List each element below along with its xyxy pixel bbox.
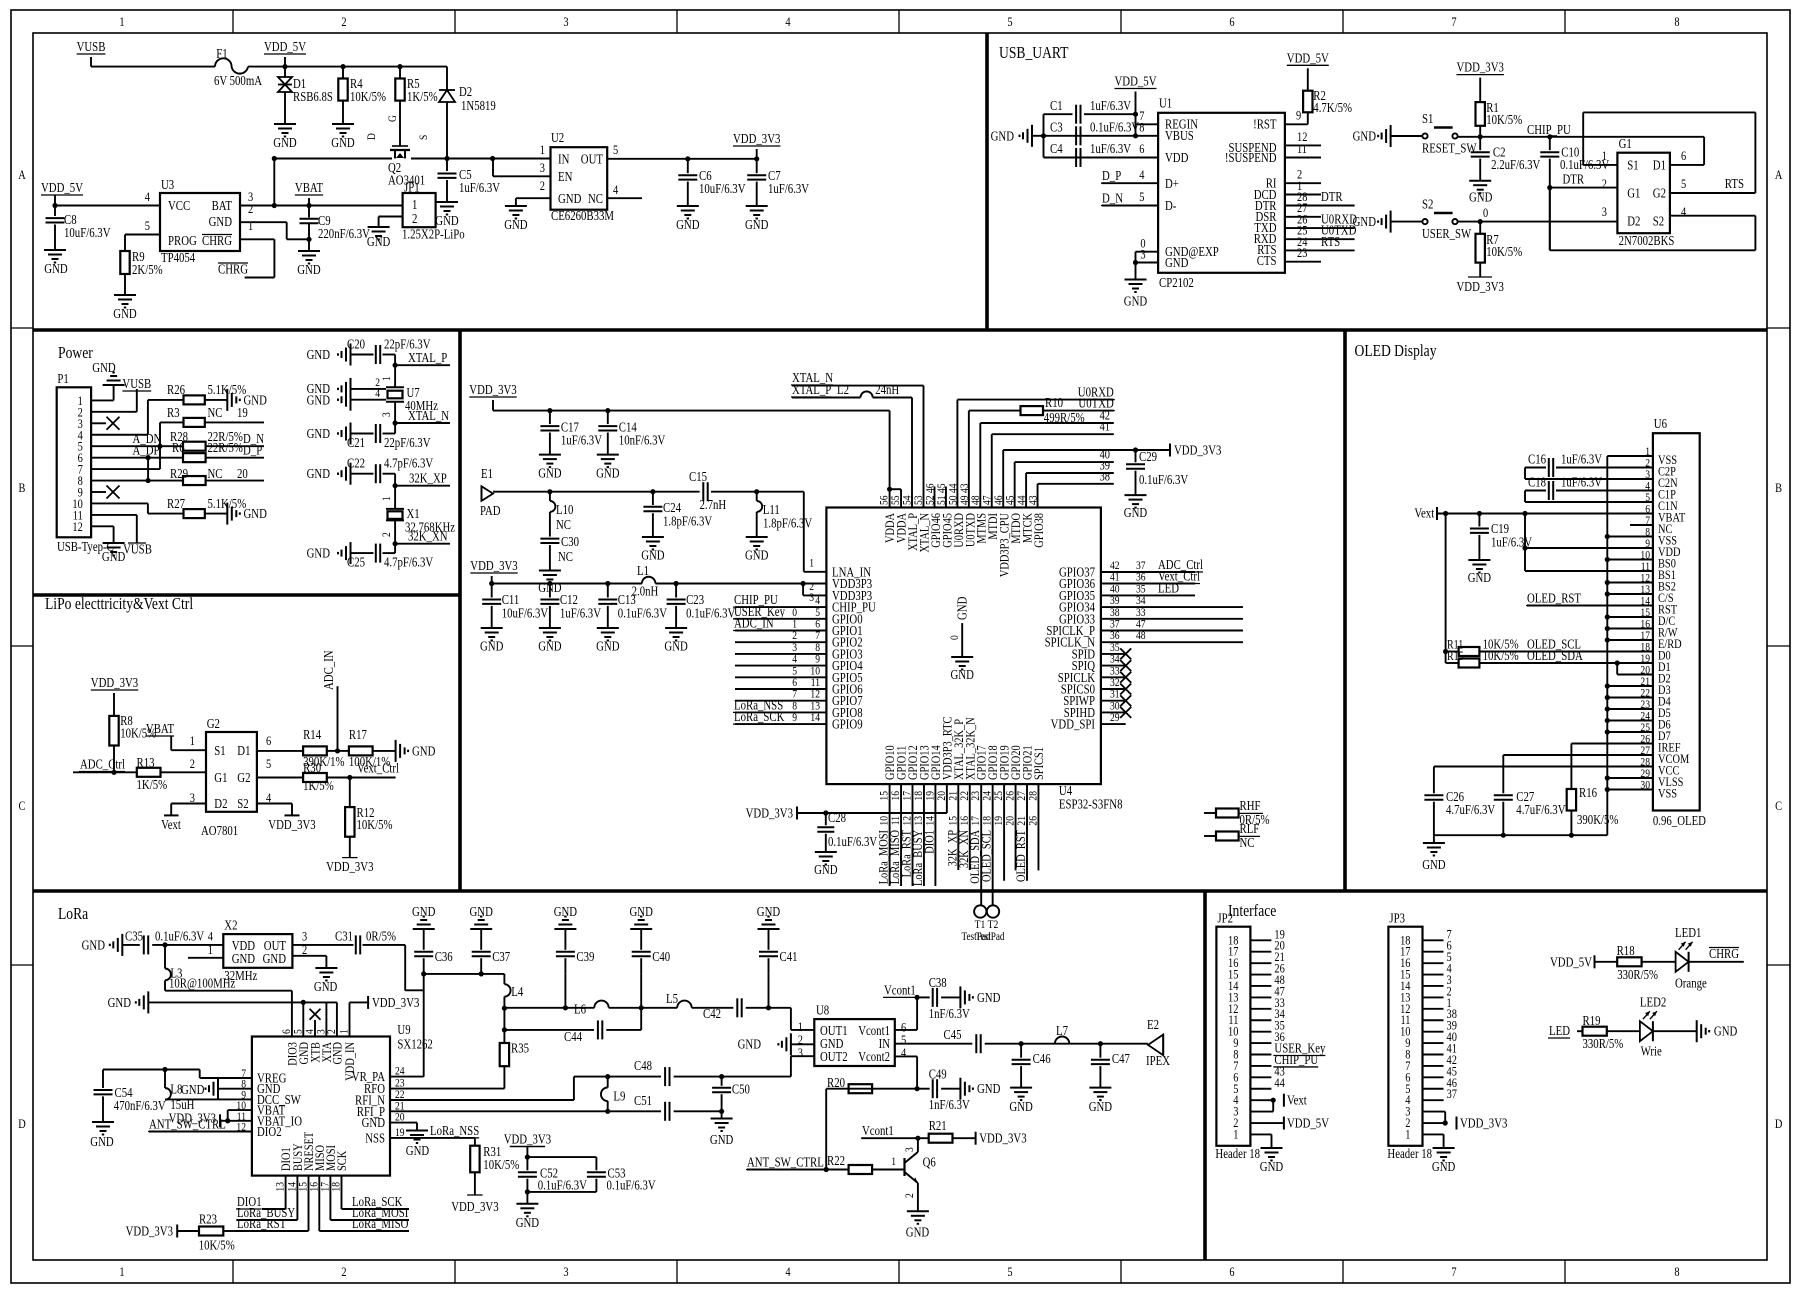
svg-text:C45: C45	[944, 1027, 962, 1042]
svg-text:26: 26	[1025, 816, 1039, 826]
svg-text:BAT: BAT	[212, 198, 233, 213]
svg-text:AO7801: AO7801	[201, 823, 238, 838]
svg-text:0.1uF/6.3V: 0.1uF/6.3V	[686, 606, 735, 621]
svg-text:C31: C31	[335, 929, 353, 944]
svg-text:!RST: !RST	[1253, 117, 1277, 132]
svg-text:NC: NC	[588, 191, 603, 206]
svg-text:1K/5%: 1K/5%	[407, 89, 438, 104]
svg-text:NC: NC	[556, 517, 571, 532]
svg-text:U1: U1	[1159, 96, 1172, 111]
svg-text:GND: GND	[641, 548, 665, 563]
svg-text:5: 5	[1007, 1264, 1012, 1279]
svg-text:IPEX: IPEX	[1146, 1053, 1170, 1068]
svg-text:GND: GND	[596, 639, 620, 654]
svg-text:2: 2	[341, 1264, 346, 1279]
svg-text:TP4054: TP4054	[161, 250, 195, 265]
svg-text:VDD_SPI: VDD_SPI	[1051, 717, 1096, 732]
svg-text:2: 2	[302, 942, 307, 957]
svg-text:1: 1	[1405, 1126, 1410, 1141]
svg-text:OUT: OUT	[581, 152, 604, 167]
svg-text:VDD_3V3: VDD_3V3	[504, 1132, 552, 1147]
svg-text:USER_SW: USER_SW	[1422, 226, 1471, 241]
svg-text:G1: G1	[214, 770, 227, 785]
svg-text:1uF/6.3V: 1uF/6.3V	[459, 180, 500, 195]
svg-text:ANT_SW_CTRL: ANT_SW_CTRL	[747, 1155, 824, 1170]
svg-text:NC: NC	[1240, 835, 1255, 850]
svg-text:G2: G2	[207, 716, 220, 731]
svg-text:GND: GND	[108, 995, 132, 1010]
svg-text:PAD: PAD	[480, 503, 501, 518]
svg-text:10K/5%: 10K/5%	[199, 1238, 235, 1253]
svg-text:CHRG: CHRG	[1709, 946, 1739, 961]
svg-text:RTS: RTS	[1321, 234, 1340, 249]
svg-text:L5: L5	[666, 991, 678, 1006]
svg-text:GND: GND	[1353, 129, 1377, 144]
svg-text:S2: S2	[1653, 214, 1664, 229]
svg-text:B: B	[1775, 480, 1782, 495]
svg-text:1: 1	[1602, 148, 1607, 163]
svg-text:S2: S2	[237, 796, 248, 811]
svg-text:2N7002BKS: 2N7002BKS	[1619, 233, 1675, 248]
svg-text:GND: GND	[538, 639, 562, 654]
svg-text:D: D	[1775, 1116, 1783, 1131]
svg-text:C40: C40	[652, 949, 670, 964]
svg-text:GND: GND	[951, 667, 975, 682]
svg-text:GND: GND	[1124, 294, 1148, 309]
svg-text:R17: R17	[349, 727, 367, 742]
svg-text:LED: LED	[1158, 580, 1179, 595]
svg-text:Vcont1: Vcont1	[884, 982, 916, 997]
svg-text:0.1uF/6.3V: 0.1uF/6.3V	[155, 929, 204, 944]
svg-text:4: 4	[1681, 204, 1687, 219]
svg-text:S2: S2	[1422, 197, 1433, 212]
svg-text:S1: S1	[214, 743, 225, 758]
svg-text:3: 3	[540, 160, 545, 175]
svg-text:2.7nH: 2.7nH	[700, 497, 727, 512]
svg-text:VDD_3V3: VDD_3V3	[91, 675, 139, 690]
svg-text:G1: G1	[1627, 186, 1640, 201]
svg-text:C20: C20	[347, 337, 365, 352]
svg-text:37: 37	[1447, 1086, 1458, 1101]
svg-text:S: S	[416, 135, 430, 140]
svg-text:0R/5%: 0R/5%	[366, 929, 396, 944]
svg-text:R18: R18	[1617, 943, 1635, 958]
svg-text:330R/5%: 330R/5%	[1583, 1036, 1624, 1051]
svg-text:1uF/6.3V: 1uF/6.3V	[1561, 475, 1602, 490]
svg-text:OLED_SCL: OLED_SCL	[979, 830, 994, 882]
svg-text:8: 8	[1139, 120, 1144, 135]
svg-text:1.25X2P-LiPo: 1.25X2P-LiPo	[402, 227, 465, 242]
svg-text:1uF/6.3V: 1uF/6.3V	[768, 181, 809, 196]
svg-text:10nF/6.3V: 10nF/6.3V	[619, 433, 666, 448]
svg-text:S1: S1	[1422, 111, 1433, 126]
svg-text:0.1uF/6.3V: 0.1uF/6.3V	[538, 1178, 587, 1193]
svg-text:4.7uF/6.3V: 4.7uF/6.3V	[1446, 802, 1495, 817]
svg-text:VSS: VSS	[1658, 786, 1677, 801]
svg-text:LED: LED	[1549, 1023, 1570, 1038]
svg-text:Vext: Vext	[1287, 1093, 1307, 1108]
svg-text:LoRa_MISO: LoRa_MISO	[352, 1216, 409, 1231]
svg-text:ADC_IN: ADC_IN	[321, 650, 336, 690]
svg-text:VDD_3V3: VDD_3V3	[1460, 1116, 1508, 1131]
svg-text:G2: G2	[237, 770, 250, 785]
svg-text:GND: GND	[504, 217, 528, 232]
svg-text:VDD_3V3: VDD_3V3	[746, 806, 794, 821]
svg-text:10K/5%: 10K/5%	[1486, 244, 1522, 259]
svg-text:ESP32-S3FN8: ESP32-S3FN8	[1059, 797, 1123, 812]
svg-text:D2: D2	[459, 84, 472, 99]
svg-text:4.7uF/6.3V: 4.7uF/6.3V	[1516, 802, 1565, 817]
svg-text:390K/5%: 390K/5%	[1577, 812, 1618, 827]
svg-text:Vcont1: Vcont1	[862, 1123, 894, 1138]
svg-text:470nF/6.3V: 470nF/6.3V	[114, 1098, 166, 1113]
svg-text:GND: GND	[307, 466, 331, 481]
svg-text:T1: T1	[975, 917, 986, 931]
svg-text:GND: GND	[1124, 505, 1148, 520]
svg-text:CTS: CTS	[1257, 253, 1277, 268]
svg-text:GND: GND	[977, 990, 1001, 1005]
svg-text:VBAT: VBAT	[295, 180, 324, 195]
svg-text:3: 3	[1140, 247, 1145, 262]
svg-text:NC: NC	[558, 549, 573, 564]
svg-text:22R/5%: 22R/5%	[208, 440, 243, 455]
svg-text:GND: GND	[314, 979, 338, 994]
svg-text:VDD_3V3: VDD_3V3	[979, 1131, 1027, 1146]
svg-text:1: 1	[379, 496, 393, 501]
svg-text:D+: D+	[1165, 176, 1179, 191]
svg-text:VDD_3V3: VDD_3V3	[469, 382, 517, 397]
svg-text:GND: GND	[558, 191, 582, 206]
svg-text:1: 1	[337, 1029, 351, 1034]
svg-text:S1: S1	[1627, 157, 1638, 172]
svg-text:T2: T2	[988, 917, 999, 931]
svg-text:E2: E2	[1147, 1017, 1159, 1032]
svg-text:29: 29	[1110, 710, 1120, 724]
svg-text:USB_UART: USB_UART	[999, 43, 1069, 62]
svg-text:6: 6	[1139, 141, 1145, 156]
svg-text:GND: GND	[307, 347, 331, 362]
svg-text:VDD_5V: VDD_5V	[1287, 50, 1329, 65]
svg-text:PROG: PROG	[168, 233, 197, 248]
svg-text:L10: L10	[556, 502, 574, 517]
svg-text:VDD_3V3: VDD_3V3	[126, 1224, 174, 1239]
svg-text:C25: C25	[347, 555, 365, 570]
svg-text:C49: C49	[929, 1067, 947, 1082]
svg-text:CHRG: CHRG	[218, 262, 248, 277]
svg-text:ADC_Ctrl: ADC_Ctrl	[80, 757, 125, 772]
svg-text:SX1262: SX1262	[397, 1037, 432, 1052]
svg-text:R6: R6	[172, 440, 185, 455]
svg-text:1N5819: 1N5819	[461, 98, 496, 113]
svg-text:OLED_RST: OLED_RST	[1013, 830, 1028, 882]
svg-text:2: 2	[190, 756, 195, 771]
svg-text:9: 9	[1296, 108, 1301, 123]
svg-text:R30: R30	[303, 760, 321, 775]
svg-text:Header 18: Header 18	[1387, 1146, 1432, 1161]
svg-text:R29: R29	[170, 466, 188, 481]
svg-text:L6: L6	[574, 1002, 586, 1017]
svg-text:VDD_5V: VDD_5V	[41, 180, 83, 195]
svg-text:R23: R23	[199, 1212, 217, 1227]
svg-text:VDD_3V3: VDD_3V3	[733, 131, 781, 146]
svg-text:U9: U9	[397, 1022, 410, 1037]
svg-text:C15: C15	[689, 469, 707, 484]
svg-text:1K/5%: 1K/5%	[303, 778, 334, 793]
svg-text:3: 3	[379, 412, 393, 417]
svg-text:48: 48	[1136, 628, 1146, 642]
svg-text:C39: C39	[576, 949, 594, 964]
svg-text:U2: U2	[551, 130, 564, 145]
svg-text:LED2: LED2	[1640, 995, 1666, 1010]
svg-text:R35: R35	[511, 1041, 529, 1056]
svg-text:1: 1	[1233, 1126, 1238, 1141]
svg-text:GND: GND	[44, 261, 68, 276]
svg-text:1nF/6.3V: 1nF/6.3V	[929, 1097, 970, 1112]
svg-text:LiPo electtricity&Vext Ctrl: LiPo electtricity&Vext Ctrl	[45, 594, 193, 613]
svg-text:10K/5%: 10K/5%	[483, 1157, 519, 1172]
svg-text:X2: X2	[224, 918, 237, 933]
svg-text:10K/5%: 10K/5%	[357, 817, 393, 832]
svg-text:RLF: RLF	[1240, 821, 1260, 836]
svg-text:4.7K/5%: 4.7K/5%	[1313, 100, 1352, 115]
svg-text:GND: GND	[991, 128, 1015, 143]
svg-text:19: 19	[395, 1125, 405, 1139]
svg-text:GND: GND	[906, 1225, 930, 1240]
svg-text:4: 4	[901, 1045, 907, 1060]
svg-text:VBUS: VBUS	[1165, 128, 1194, 143]
svg-text:C50: C50	[732, 1082, 750, 1097]
svg-text:L4: L4	[511, 984, 523, 999]
svg-text:GND: GND	[1469, 190, 1493, 205]
svg-text:1: 1	[379, 376, 393, 381]
svg-text:L7: L7	[1056, 1023, 1068, 1038]
svg-text:NC: NC	[208, 466, 223, 481]
svg-text:3: 3	[1602, 204, 1607, 219]
svg-text:GND: GND	[596, 466, 620, 481]
svg-text:LoRa_NSS: LoRa_NSS	[430, 1123, 479, 1138]
svg-text:0: 0	[1483, 205, 1488, 220]
svg-text:JP2: JP2	[1217, 911, 1233, 926]
svg-text:GND: GND	[745, 548, 769, 563]
svg-text:7: 7	[1451, 1264, 1457, 1279]
svg-text:RHF: RHF	[1240, 798, 1261, 813]
svg-text:6V 500mA: 6V 500mA	[214, 73, 262, 88]
svg-text:0.1uF/6.3V: 0.1uF/6.3V	[1090, 120, 1139, 135]
svg-text:41: 41	[1100, 419, 1110, 434]
svg-text:GND: GND	[367, 234, 391, 249]
svg-text:C30: C30	[561, 534, 579, 549]
svg-text:A_DP: A_DP	[133, 443, 160, 458]
svg-text:R19: R19	[1583, 1013, 1601, 1028]
svg-text:OLED_SDA: OLED_SDA	[1527, 648, 1583, 663]
svg-text:14: 14	[810, 710, 820, 724]
svg-text:2K/5%: 2K/5%	[132, 262, 163, 277]
svg-text:4: 4	[145, 189, 151, 204]
svg-text:1uF/6.3V: 1uF/6.3V	[1090, 141, 1131, 156]
svg-text:VDD_5V: VDD_5V	[1550, 955, 1592, 970]
svg-text:LoRa: LoRa	[58, 904, 89, 923]
svg-text:GPIO38: GPIO38	[1031, 513, 1046, 548]
svg-text:GND: GND	[297, 262, 321, 277]
svg-text:Vext_Ctrl: Vext_Ctrl	[357, 761, 399, 776]
svg-text:TestPad: TestPad	[976, 931, 1005, 943]
svg-text:6: 6	[1229, 1264, 1235, 1279]
svg-text:RTS: RTS	[1725, 176, 1744, 191]
svg-text:1: 1	[119, 1264, 124, 1279]
svg-text:7: 7	[1451, 14, 1457, 29]
svg-text:ANT_SW_CTRL: ANT_SW_CTRL	[149, 1117, 226, 1132]
svg-text:C41: C41	[780, 949, 798, 964]
svg-text:C28: C28	[828, 810, 846, 825]
svg-text:VDD_5V: VDD_5V	[1287, 1116, 1329, 1131]
svg-text:NSS: NSS	[365, 1130, 385, 1145]
svg-text:20: 20	[237, 466, 248, 481]
svg-text:GPIO9: GPIO9	[832, 717, 863, 732]
svg-text:E1: E1	[481, 466, 493, 481]
svg-text:CE6260B33M: CE6260B33M	[551, 208, 614, 223]
svg-text:GND: GND	[113, 306, 137, 321]
svg-text:GND: GND	[412, 743, 436, 758]
svg-text:D: D	[18, 1116, 26, 1131]
svg-text:B: B	[19, 480, 26, 495]
svg-text:C4: C4	[1050, 141, 1063, 156]
svg-text:D1: D1	[237, 743, 250, 758]
svg-text:GND: GND	[676, 217, 700, 232]
svg-text:U8: U8	[816, 1003, 829, 1018]
svg-text:JP1: JP1	[404, 180, 420, 195]
svg-text:12: 12	[72, 519, 82, 534]
svg-text:11: 11	[1297, 141, 1307, 156]
svg-text:1uF/6.3V: 1uF/6.3V	[1090, 98, 1131, 113]
svg-text:IN: IN	[558, 152, 570, 167]
svg-text:R26: R26	[167, 382, 185, 397]
svg-text:Orange: Orange	[1675, 976, 1707, 991]
svg-text:VUSB: VUSB	[122, 376, 151, 391]
svg-text:VDD_3V3: VDD_3V3	[326, 859, 374, 874]
svg-text:Vext: Vext	[161, 817, 181, 832]
svg-text:D_P: D_P	[1102, 168, 1121, 183]
svg-text:GND: GND	[814, 862, 838, 877]
svg-text:D_P: D_P	[243, 443, 262, 458]
svg-text:CHIP_PU: CHIP_PU	[1527, 122, 1571, 137]
svg-text:3: 3	[902, 1147, 916, 1152]
svg-text:VCC: VCC	[168, 198, 190, 213]
svg-text:2: 2	[540, 178, 545, 193]
svg-text:R20: R20	[827, 1075, 845, 1090]
svg-text:22pF/6.3V: 22pF/6.3V	[384, 435, 431, 450]
svg-text:5: 5	[145, 218, 150, 233]
svg-text:5: 5	[1681, 176, 1686, 191]
svg-text:VDD_5V: VDD_5V	[1115, 74, 1157, 89]
svg-text:GND: GND	[1165, 255, 1189, 270]
svg-text:A: A	[1775, 167, 1783, 182]
svg-text:6: 6	[1681, 148, 1687, 163]
svg-text:28: 28	[1025, 791, 1039, 801]
svg-text:Wrie: Wrie	[1641, 1044, 1662, 1059]
svg-text:23: 23	[1297, 245, 1307, 260]
svg-text:G: G	[385, 115, 399, 122]
svg-text:5: 5	[613, 142, 618, 157]
svg-text:LoRa_SCK: LoRa_SCK	[734, 709, 785, 724]
svg-text:GND: GND	[181, 1082, 205, 1097]
svg-text:Vext: Vext	[1414, 506, 1434, 521]
svg-text:GND: GND	[1422, 857, 1446, 872]
svg-text:220nF/6.3V: 220nF/6.3V	[318, 226, 370, 241]
svg-text:2.2uF/6.3V: 2.2uF/6.3V	[1491, 157, 1540, 172]
svg-text:0.1uF/6.3V: 0.1uF/6.3V	[618, 606, 667, 621]
svg-text:GND: GND	[710, 1132, 734, 1147]
svg-text:VBAT: VBAT	[146, 721, 175, 736]
svg-text:G2: G2	[1653, 186, 1666, 201]
svg-text:10R@100MHz: 10R@100MHz	[169, 976, 235, 991]
svg-text:SCK: SCK	[334, 1150, 349, 1171]
svg-text:6: 6	[266, 733, 272, 748]
svg-text:Vcont2: Vcont2	[858, 1049, 890, 1064]
svg-text:2: 2	[412, 211, 417, 226]
svg-text:D_N: D_N	[1102, 191, 1123, 206]
svg-text:GND: GND	[90, 1134, 114, 1149]
svg-text:GND: GND	[1432, 1159, 1456, 1174]
svg-text:EN: EN	[558, 169, 573, 184]
svg-text:Interface: Interface	[1228, 901, 1276, 920]
svg-text:RESET_SW: RESET_SW	[1422, 141, 1477, 156]
svg-text:VDD_3V3: VDD_3V3	[1457, 60, 1505, 75]
svg-text:L2: L2	[837, 382, 849, 397]
svg-text:R27: R27	[167, 496, 185, 511]
svg-text:Q6: Q6	[923, 1155, 936, 1170]
svg-text:C22: C22	[347, 456, 365, 471]
svg-text:10uF/6.3V: 10uF/6.3V	[502, 606, 549, 621]
svg-text:Header 18: Header 18	[1215, 1146, 1260, 1161]
svg-text:4: 4	[785, 14, 791, 29]
svg-text:2: 2	[379, 532, 393, 537]
svg-text:R22: R22	[827, 1153, 845, 1168]
svg-text:14: 14	[922, 816, 936, 826]
svg-text:1: 1	[412, 197, 417, 212]
svg-text:4.7pF/6.3V: 4.7pF/6.3V	[384, 456, 433, 471]
svg-text:R15: R15	[1447, 649, 1464, 663]
svg-text:3: 3	[563, 1264, 568, 1279]
svg-text:C47: C47	[1112, 1051, 1130, 1066]
svg-text:1uF/6.3V: 1uF/6.3V	[1491, 535, 1532, 550]
svg-text:4: 4	[785, 1264, 791, 1279]
svg-text:GND: GND	[1260, 1159, 1284, 1174]
svg-text:VDD_3V3: VDD_3V3	[1174, 443, 1222, 458]
svg-text:D1: D1	[1653, 157, 1666, 172]
svg-text:2: 2	[1602, 176, 1607, 191]
svg-text:C3: C3	[1050, 120, 1063, 135]
svg-text:5: 5	[1139, 189, 1144, 204]
svg-text:1: 1	[891, 1154, 896, 1168]
svg-text:4: 4	[375, 386, 380, 400]
svg-text:1: 1	[190, 733, 195, 748]
svg-text:10K/5%: 10K/5%	[350, 89, 386, 104]
svg-text:0.1uF/6.3V: 0.1uF/6.3V	[1139, 472, 1188, 487]
svg-text:L9: L9	[613, 1089, 625, 1104]
svg-text:L1: L1	[637, 563, 649, 578]
svg-text:1: 1	[248, 218, 253, 233]
svg-text:R13: R13	[137, 755, 155, 770]
svg-text:10uF/6.3V: 10uF/6.3V	[699, 181, 746, 196]
svg-text:VDD_5V: VDD_5V	[264, 39, 306, 54]
svg-text:LoRa_RST: LoRa_RST	[237, 1216, 287, 1231]
svg-text:R21: R21	[929, 1118, 947, 1133]
svg-text:6: 6	[1229, 14, 1235, 29]
svg-text:GND: GND	[955, 596, 970, 620]
svg-text:GND: GND	[1089, 1099, 1113, 1114]
svg-text:D2: D2	[214, 796, 227, 811]
svg-text:GND: GND	[244, 506, 268, 521]
